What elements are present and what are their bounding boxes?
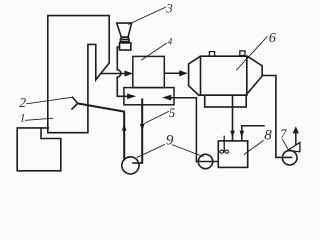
label 8 leader (244, 141, 263, 155)
label 4 leader (142, 43, 167, 60)
svg-text:1: 1 (20, 113, 26, 125)
label 2 leader (27, 97, 73, 104)
fan 7 circle (282, 150, 297, 165)
drum top stub right (240, 51, 245, 56)
funnel 3 cone (117, 23, 132, 37)
label 1 leader (26, 118, 53, 120)
drum internal right rib (246, 56, 248, 95)
label 3 leader (129, 7, 166, 24)
box 4 feeder (133, 56, 165, 87)
feed pipe into tank 8 (242, 126, 264, 141)
arrow into tank 8 from drum (230, 131, 235, 138)
chamber 1 body (48, 16, 109, 133)
tank 8 (218, 141, 247, 168)
label 6 leader (237, 37, 268, 70)
label 7 leader (282, 139, 289, 150)
flow arrow down on box5 pipe (140, 124, 145, 131)
drum internal left rib (200, 56, 202, 95)
fan exhaust arrow (295, 134, 297, 145)
pipe drum under-box to tank 8 (232, 95, 234, 141)
label 9 leader right (172, 145, 203, 157)
box 5 (124, 88, 174, 105)
pump 9 left inner stub (133, 162, 142, 164)
pipe from right pump to box 5 (169, 98, 196, 162)
funnel 3 bottom box (120, 43, 131, 50)
pump 9 right circle (198, 154, 212, 168)
svg-text:8: 8 (264, 128, 272, 144)
label 9 leader left (137, 145, 164, 158)
funnel 3 collar (120, 37, 129, 41)
svg-text:6: 6 (269, 31, 276, 46)
box 5 down pipe to pump (141, 100, 143, 163)
pump 9 right inner line and tank stub (196, 161, 218, 163)
drum top stub left (209, 52, 214, 57)
agitator shaft (223, 136, 225, 151)
chamber outlet neck and product box (17, 128, 61, 171)
nozzle 2 (72, 97, 78, 109)
funnel feed pipe to boxes (117, 47, 129, 96)
svg-text:3: 3 (165, 0, 173, 15)
arrow into box 5 left (127, 94, 136, 100)
svg-text:9: 9 (166, 132, 174, 148)
nozzle feed pipe from pump (78, 103, 125, 159)
arrow into box 4 (125, 71, 134, 77)
drum 6 body (189, 56, 263, 95)
agitator blades (220, 150, 224, 153)
svg-text:4: 4 (168, 37, 173, 47)
svg-text:2: 2 (19, 95, 26, 110)
arrow into box 5 right (162, 95, 171, 101)
svg-text:7: 7 (280, 127, 287, 141)
duct drum to fan (262, 76, 291, 158)
label 5 leader (145, 112, 169, 124)
svg-text:5: 5 (169, 106, 175, 120)
fan 7 triangle (287, 143, 300, 152)
flow arrow up on feed pipe (122, 124, 127, 131)
pipe box 4 to drum (164, 72, 180, 74)
arrow into drum 6 (179, 70, 188, 76)
pump 9 left circle (122, 157, 139, 174)
drum under-box (205, 95, 247, 107)
pipe chamber to box 4 (101, 73, 125, 75)
arrow into tank 8 feed (240, 131, 245, 138)
